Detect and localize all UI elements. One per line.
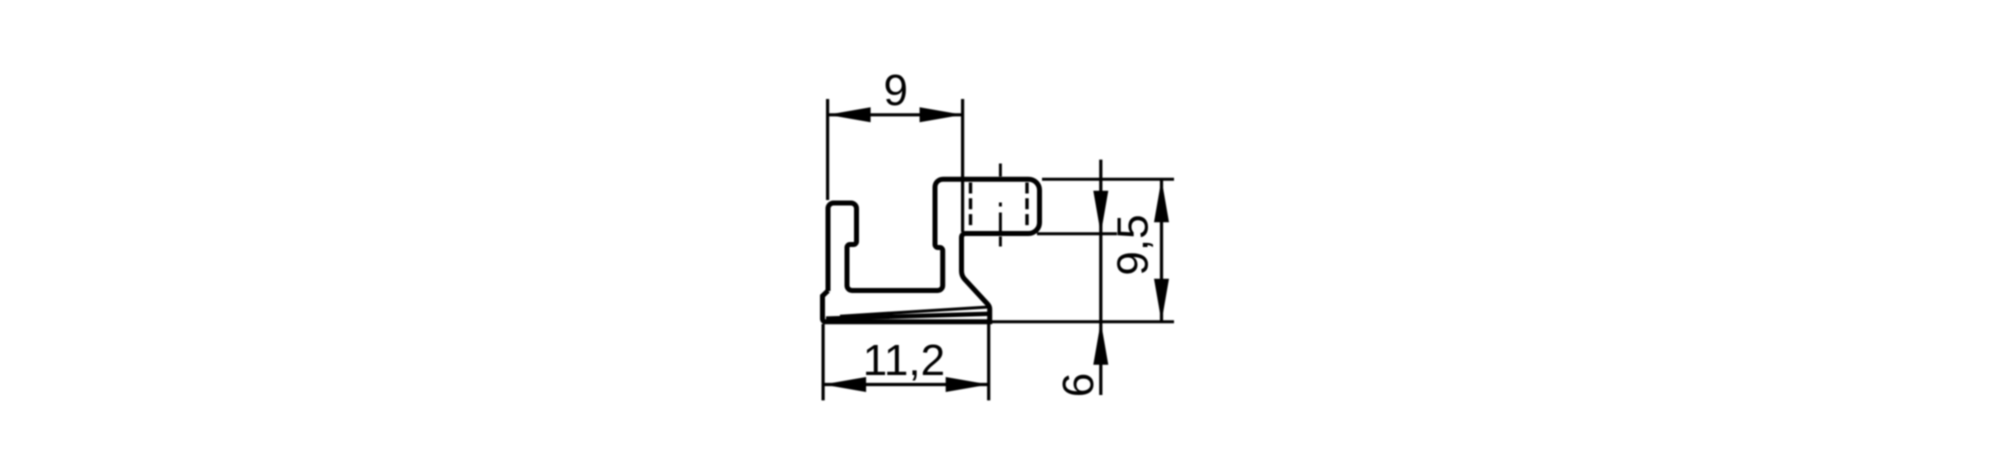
svg-text:9: 9 xyxy=(883,66,907,115)
svg-text:6: 6 xyxy=(1054,373,1103,397)
svg-text:11,2: 11,2 xyxy=(863,336,945,385)
svg-text:9,5: 9,5 xyxy=(1109,214,1158,275)
